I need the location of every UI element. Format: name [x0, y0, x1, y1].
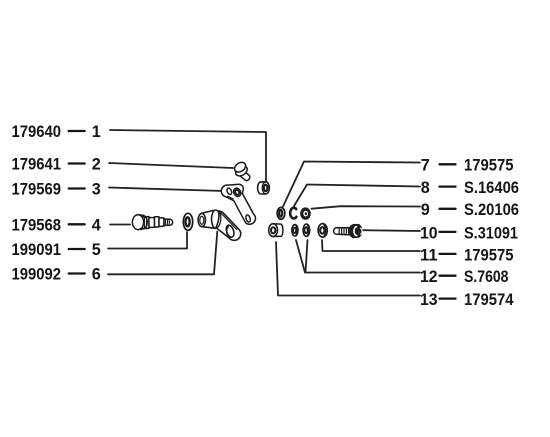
leader line 10 — [363, 229, 420, 232]
svg-text:2: 2 — [92, 156, 101, 174]
svg-text:S.20106: S.20106 — [464, 201, 519, 219]
svg-text:179574: 179574 — [464, 291, 514, 309]
svg-text:179575: 179575 — [464, 246, 514, 264]
part 5: washer 199091 — [183, 213, 192, 230]
leader line 4 — [110, 224, 130, 226]
label row 2: 179641 - 2 — [12, 156, 101, 174]
svg-text:179569: 179569 — [12, 181, 62, 199]
part 12a: washer S.7608 — [292, 225, 298, 236]
svg-text:179568: 179568 — [12, 216, 62, 234]
leader line 8 — [294, 185, 420, 207]
part 2: shoulder bolt 179641 — [233, 160, 250, 180]
label row 8: 8 - S.16406 — [421, 179, 519, 197]
leader line 3 — [109, 188, 224, 192]
label row 10: 10 - S.31091 — [420, 224, 518, 242]
label row 4: 179568 - 4 — [12, 216, 101, 234]
svg-text:199092: 199092 — [12, 266, 62, 284]
leader line 7 — [283, 162, 420, 207]
part 6: lever 199092 — [198, 210, 241, 240]
label row 11: 11 - 179575 — [420, 246, 514, 264]
svg-text:7: 7 — [421, 157, 430, 175]
leader line 6 — [108, 232, 217, 275]
svg-text:11: 11 — [420, 246, 438, 264]
part 9: self-locking nut S.20106 — [301, 208, 311, 219]
label row 3: 179569 - 3 — [12, 181, 101, 199]
svg-text:199091: 199091 — [12, 241, 62, 259]
svg-text:179575: 179575 — [464, 157, 514, 175]
part 10: screw S.31091 — [334, 225, 363, 238]
label row 9: 9 - S.20106 — [421, 201, 519, 219]
svg-text:179641: 179641 — [12, 156, 62, 174]
svg-text:S.7608: S.7608 — [464, 268, 509, 286]
part 3: relay lever 179569 — [221, 184, 255, 224]
leader line 13 — [276, 242, 420, 296]
label row 5: 199091 - 5 — [12, 241, 101, 259]
leader line 11 — [322, 240, 420, 251]
part 1: spacer nut 179640 — [258, 182, 270, 194]
part 12b: washer S.7608 — [303, 224, 310, 236]
leader line 1 — [110, 130, 266, 181]
part 7: washer 179575 — [277, 207, 285, 219]
svg-text:1: 1 — [92, 123, 101, 141]
svg-text:S.31091: S.31091 — [464, 224, 518, 242]
part 4: adjusting screw 179568 — [132, 215, 172, 230]
svg-text:12: 12 — [420, 268, 438, 286]
label row 12: 12 - S.7608 — [420, 268, 509, 286]
label row 1: 179640 - 1 — [12, 123, 101, 141]
svg-text:9: 9 — [421, 201, 430, 219]
part 11: washer 179575 — [318, 224, 327, 238]
svg-text:179640: 179640 — [12, 123, 62, 141]
svg-text:5: 5 — [92, 241, 101, 259]
leader line 12 (two branches) — [296, 240, 420, 273]
label row 7: 7 - 179575 — [421, 157, 514, 175]
svg-text:8: 8 — [421, 179, 430, 197]
leader line 5 — [108, 232, 187, 249]
svg-text:3: 3 — [92, 181, 101, 199]
svg-text:4: 4 — [92, 216, 101, 234]
svg-text:S.16406: S.16406 — [464, 179, 519, 197]
svg-text:10: 10 — [420, 224, 438, 242]
leader line 9 — [312, 206, 421, 209]
part 13: bushing 179574 — [269, 224, 283, 237]
part 8: circlip S.16406 — [290, 208, 296, 219]
svg-text:13: 13 — [420, 291, 438, 309]
label row 13: 13 - 179574 — [420, 291, 514, 309]
label row 6: 199092 - 6 — [12, 266, 101, 284]
svg-text:6: 6 — [92, 266, 101, 284]
leader line 2 — [109, 163, 233, 168]
